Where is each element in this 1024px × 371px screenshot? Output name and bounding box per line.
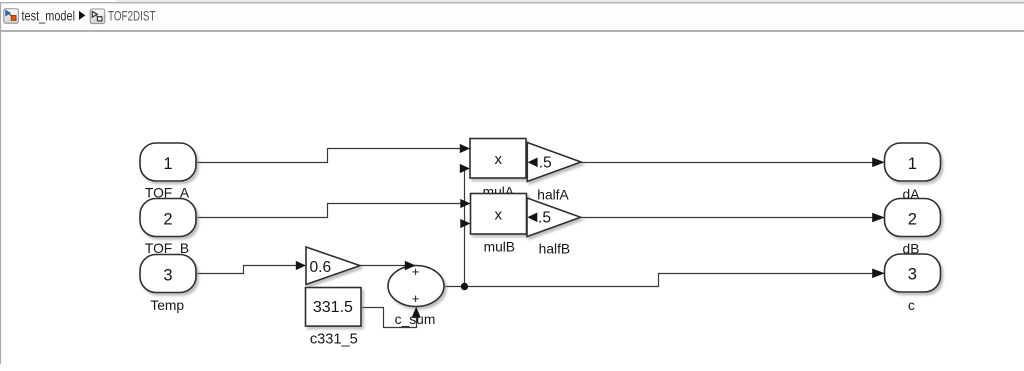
wire gain c0_6 to sum top — [360, 265, 406, 267]
wire constant c331_5 to sum bottom — [361, 308, 417, 328]
svg-text:test_model: test_model — [22, 8, 76, 23]
block content texts — [163, 151, 917, 316]
breadcrumb bar — [0, 3, 1024, 30]
svg-text:1: 1 — [163, 154, 172, 173]
wire c branch vertical to mulA in2 — [461, 169, 465, 287]
toolstrip bottom strip — [0, 0, 1024, 2]
product block mulB — [471, 194, 527, 235]
product block mulA — [470, 139, 526, 179]
svg-text:c331_5: c331_5 — [310, 332, 358, 348]
arrow inside gain halfA — [528, 158, 538, 168]
gain block halfA — [527, 143, 581, 182]
svg-text:1: 1 — [908, 154, 917, 173]
svg-text:2: 2 — [163, 209, 172, 228]
svg-text:.5: .5 — [538, 210, 551, 227]
outport 3 c — [885, 254, 941, 292]
arrow into mulB in1 — [460, 199, 470, 208]
wire halfB to outport dB — [581, 217, 873, 219]
breadcrumb arrow — [79, 11, 85, 20]
svg-text:331.5: 331.5 — [313, 299, 353, 316]
svg-text:+: + — [412, 291, 420, 306]
svg-text:2: 2 — [908, 209, 917, 228]
arrow inside gain halfB — [527, 213, 537, 223]
wire TOF_B to mulB in1 — [196, 204, 462, 218]
svg-text:mulB: mulB — [484, 240, 515, 255]
toolstrip border line — [0, 2, 1024, 3]
svg-text:x: x — [495, 151, 503, 168]
inport 1 TOF_A — [140, 143, 196, 181]
svg-text:c: c — [908, 298, 915, 313]
inport 2 TOF_B — [140, 199, 196, 237]
arrow into mulA in1 — [460, 144, 470, 153]
svg-text:x: x — [495, 206, 503, 223]
outport 2 dB — [885, 199, 941, 237]
arrow into outport c — [872, 269, 885, 279]
sum block c_sum — [388, 266, 444, 307]
gain block halfB — [527, 198, 581, 237]
breadcrumb separator — [0, 30, 1024, 32]
svg-text:3: 3 — [163, 265, 172, 284]
wire Temp to gain c0_6 — [196, 266, 297, 274]
wire sum output to outport c — [444, 274, 873, 287]
svg-text:halfB: halfB — [539, 241, 570, 256]
wire halfA to outport dA — [581, 162, 873, 164]
arrow into outport dB — [872, 213, 885, 223]
breadcrumb icon model (test_model) — [4, 9, 19, 24]
svg-text:0.6: 0.6 — [310, 259, 332, 276]
svg-text:.5: .5 — [539, 155, 552, 172]
arrow into sum bottom — [412, 307, 421, 318]
junction dot on c wire — [461, 283, 468, 290]
arrow into gain c0_6 — [296, 261, 306, 270]
svg-text:TOF2DIST: TOF2DIST — [108, 8, 156, 23]
inport 3 Temp — [140, 255, 196, 293]
gain block c0_6 — [306, 247, 360, 285]
left window border — [0, 3, 1, 364]
breadcrumb icon subsystem (TOF2DIST) — [90, 9, 105, 24]
arrow into mulB in2 — [460, 219, 470, 228]
arrow into sum top — [405, 261, 416, 271]
arrow into outport dA — [872, 158, 885, 168]
svg-text:3: 3 — [908, 264, 917, 283]
wire TOF_A to mulA in1 — [196, 149, 461, 163]
arrow into mulA in2 — [460, 164, 470, 173]
outport 1 dA — [885, 143, 941, 181]
svg-text:Temp: Temp — [150, 298, 184, 313]
svg-text:halfA: halfA — [537, 187, 569, 202]
constant block c331_5 — [306, 288, 362, 327]
